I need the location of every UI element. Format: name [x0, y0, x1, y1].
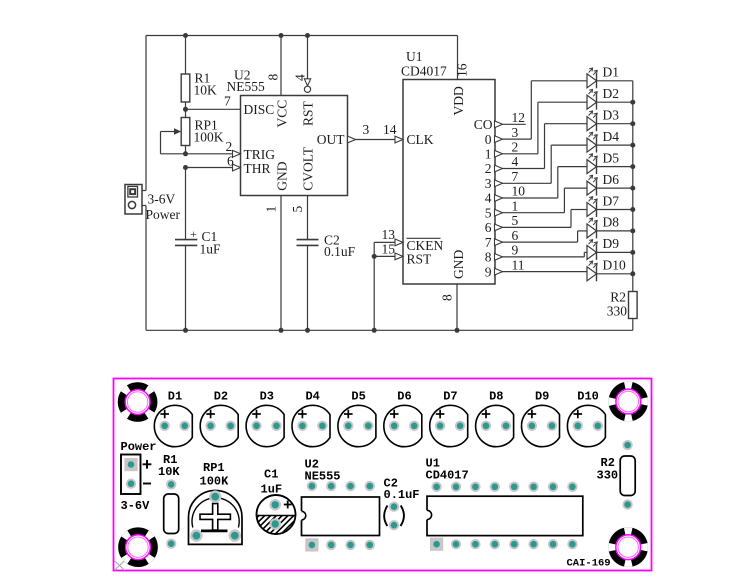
svg-text:3-6V: 3-6V	[148, 192, 176, 207]
svg-text:0.1uF: 0.1uF	[384, 488, 420, 502]
resistor R1 10K	[181, 36, 217, 118]
capacitor C2 0.1uF	[297, 233, 356, 331]
PCB LED footprint D6	[384, 390, 422, 447]
PCB LED footprint D10	[567, 390, 605, 447]
svg-text:6: 6	[512, 228, 519, 243]
op-amp U2 NE555 timer	[227, 68, 348, 196]
wire U1 output 6 (pin 5) to D7	[495, 210, 588, 231]
node LED bus junction D10	[630, 271, 635, 276]
svg-text:5: 5	[485, 205, 492, 220]
svg-text:RP1: RP1	[203, 461, 225, 475]
svg-text:CLK: CLK	[407, 132, 434, 147]
svg-text:14: 14	[383, 122, 397, 137]
svg-text:NE555: NE555	[227, 79, 265, 94]
wire VDD pin16	[455, 36, 470, 80]
wire CKEN/RST ground stub	[373, 242, 375, 330]
svg-text:13: 13	[382, 227, 396, 242]
svg-text:8: 8	[266, 74, 281, 81]
svg-text:GND: GND	[451, 250, 466, 279]
wire CKEN pin13	[374, 227, 403, 246]
svg-text:TRIG: TRIG	[244, 147, 276, 162]
svg-text:1: 1	[264, 206, 279, 213]
wire VCC pin8	[266, 33, 284, 96]
node R1 top junction	[183, 33, 188, 38]
PCB mounting hole top-left	[115, 380, 160, 425]
svg-text:100K: 100K	[194, 130, 224, 145]
node LED bus junction D5	[630, 164, 635, 169]
svg-text:Power: Power	[146, 207, 181, 222]
svg-text:2: 2	[485, 161, 492, 176]
wire U1 output 3 (pin 7) to D4	[495, 145, 588, 187]
svg-text:DISC: DISC	[244, 102, 275, 117]
svg-text:D10: D10	[603, 258, 626, 273]
op-amp U1 CD4017 counter	[401, 49, 495, 284]
svg-text:D4: D4	[603, 129, 620, 144]
svg-text:10K: 10K	[194, 83, 218, 98]
PCB connector Power 3-6V	[121, 440, 157, 513]
svg-text:4: 4	[293, 74, 308, 81]
wire LED cathode bus	[632, 81, 634, 292]
wire U1 output 4 (pin 10) to D5	[495, 167, 588, 202]
PCB LED footprint D5	[338, 390, 376, 447]
node LED bus junction D8	[630, 228, 635, 233]
svg-text:7: 7	[485, 235, 492, 250]
svg-text:THR: THR	[244, 161, 271, 176]
svg-text:16: 16	[455, 63, 470, 77]
svg-text:GND: GND	[275, 161, 290, 190]
wire CVOLT pin5	[290, 196, 308, 240]
LED D9	[587, 236, 633, 260]
svg-text:8: 8	[440, 294, 455, 301]
wire left ground rail lower segment	[145, 206, 147, 331]
wire left power rail upper segment	[145, 36, 147, 191]
node THR junction	[183, 165, 188, 170]
svg-text:5: 5	[290, 206, 305, 213]
LED D2	[587, 86, 633, 110]
PCB potentiometer RP1 100K	[189, 461, 243, 544]
node LED bus junction D7	[630, 207, 635, 212]
svg-text:1: 1	[485, 147, 492, 162]
PCB mounting hole bottom-right	[608, 527, 648, 567]
svg-text:12: 12	[512, 110, 526, 125]
svg-text:6: 6	[227, 154, 234, 169]
svg-text:100K: 100K	[200, 475, 230, 489]
wire THR pin6	[186, 167, 234, 169]
svg-text:D8: D8	[603, 215, 620, 230]
PCB LED footprint D9	[522, 390, 560, 447]
svg-text:D6: D6	[603, 172, 620, 187]
PCB LED footprint D3	[246, 390, 284, 447]
wire U1 output 8 (pin 9) to D9	[495, 243, 588, 261]
PCB capacitor C1 1uF	[235, 468, 317, 540]
svg-text:0: 0	[485, 132, 492, 147]
svg-text:D1: D1	[603, 65, 620, 80]
node C1 ground junction	[183, 328, 188, 333]
svg-text:CKEN: CKEN	[407, 238, 444, 253]
wire bottom ground rail	[146, 329, 633, 331]
svg-text:D7: D7	[603, 193, 620, 208]
PCB board outline	[114, 379, 652, 571]
svg-text:VCC: VCC	[275, 100, 290, 128]
svg-text:OUT: OUT	[317, 132, 345, 147]
PCB op-amp U2 NE555 DIP-8	[300, 458, 379, 552]
svg-text:15: 15	[382, 241, 396, 256]
PCB resistor R2 330	[597, 440, 636, 510]
svg-text:4: 4	[512, 154, 519, 169]
node stub junction	[372, 254, 377, 259]
svg-text:11: 11	[512, 257, 525, 272]
svg-text:D10: D10	[577, 390, 599, 404]
LED D8	[587, 215, 633, 239]
svg-text:CAI-169: CAI-169	[567, 558, 611, 570]
PCB LED footprint D2	[200, 390, 238, 447]
LED D7	[587, 193, 633, 217]
node LED bus junction D2	[630, 100, 635, 105]
svg-text:D6: D6	[397, 390, 411, 404]
node LED bus junction D3	[630, 121, 635, 126]
wire U1 output 5 (pin 1) to D6	[495, 188, 588, 216]
PCB LED footprint D1	[154, 390, 192, 447]
PCB LED footprint D4	[292, 390, 330, 447]
capacitor C1 1uF	[175, 227, 221, 330]
PCB capacitor C2 0.1uF	[384, 477, 420, 531]
svg-text:10: 10	[512, 184, 526, 199]
svg-text:2: 2	[512, 140, 519, 155]
wire TRIG pin2	[186, 153, 234, 155]
svg-text:3: 3	[363, 122, 370, 137]
svg-text:D9: D9	[603, 236, 620, 251]
wire RST pin4 with reset bubble	[293, 33, 311, 92]
svg-text:U1: U1	[406, 49, 423, 64]
PCB mounting hole top-right	[609, 382, 649, 422]
svg-text:D1: D1	[168, 390, 182, 404]
svg-text:0.1uF: 0.1uF	[324, 244, 356, 259]
node TRIG junction	[183, 151, 188, 156]
wire CO pin12 stub	[495, 110, 526, 128]
wire U1 output 9 (pin 11) to D10	[495, 257, 591, 275]
svg-text:RST: RST	[407, 252, 433, 267]
wire GND pin8	[440, 284, 458, 330]
svg-text:3: 3	[512, 125, 519, 140]
svg-text:D8: D8	[489, 390, 503, 404]
node LED bus junction D4	[630, 143, 635, 148]
svg-text:+: +	[190, 227, 197, 241]
node LED bus junction D9	[630, 250, 635, 255]
svg-text:1uF: 1uF	[200, 242, 222, 257]
svg-text:D5: D5	[603, 150, 620, 165]
LED D4	[587, 129, 633, 153]
PCB op-amp U1 CD4017 DIP-16	[426, 457, 583, 551]
connector 3-6V Power	[125, 185, 180, 223]
svg-text:7: 7	[512, 169, 519, 184]
wire U1 output 7 (pin 6) to D8	[495, 228, 588, 246]
wire U1 output 2 (pin 4) to D3	[495, 124, 588, 172]
potentiometer RP1 100K	[161, 118, 224, 154]
svg-text:VDD: VDD	[451, 86, 466, 115]
svg-text:1: 1	[512, 198, 519, 213]
svg-text:4: 4	[485, 191, 492, 206]
svg-text:5: 5	[512, 213, 519, 228]
svg-text:RST: RST	[301, 100, 316, 126]
svg-text:D4: D4	[305, 390, 319, 404]
PCB mounting hole bottom-left	[116, 525, 161, 570]
svg-text:7: 7	[224, 94, 231, 109]
LED D10	[587, 258, 633, 282]
wire U1 output 1 (pin 2) to D2	[495, 102, 588, 157]
svg-text:R2: R2	[610, 290, 626, 305]
svg-text:D3: D3	[603, 108, 620, 123]
PCB LED footprint D7	[430, 390, 468, 447]
svg-text:D2: D2	[214, 390, 228, 404]
svg-text:D9: D9	[535, 390, 549, 404]
node DISC junction	[183, 107, 188, 112]
svg-text:2: 2	[226, 139, 233, 154]
resistor R2 330	[607, 290, 637, 331]
svg-text:10K: 10K	[158, 465, 180, 479]
svg-text:CD4017: CD4017	[426, 469, 469, 483]
svg-text:330: 330	[607, 304, 628, 319]
svg-text:D7: D7	[443, 390, 457, 404]
svg-text:CVOLT: CVOLT	[301, 146, 316, 191]
wire top power rail	[146, 35, 458, 37]
svg-text:D5: D5	[351, 390, 365, 404]
wire DISC pin7	[186, 108, 241, 110]
wire U1 output 0 (pin 3) to D1	[495, 81, 588, 143]
svg-text:9: 9	[512, 243, 519, 258]
svg-text:CO: CO	[474, 117, 493, 132]
corner mark	[115, 561, 125, 570]
svg-text:3-6V: 3-6V	[121, 499, 151, 513]
svg-text:8: 8	[485, 250, 492, 265]
svg-text:Power: Power	[121, 440, 157, 454]
wire OUT pin3 to CLK pin14	[348, 122, 404, 143]
svg-text:C1: C1	[264, 468, 278, 482]
svg-text:D3: D3	[260, 390, 274, 404]
svg-text:9: 9	[485, 264, 492, 279]
LED D1	[587, 65, 633, 89]
svg-text:330: 330	[597, 469, 619, 483]
PCB resistor R1 10K	[158, 453, 180, 549]
PCB LED footprint D8	[476, 390, 514, 447]
node LED bus junction D6	[630, 186, 635, 191]
wire THR to C1	[185, 168, 187, 240]
LED D3	[587, 108, 633, 132]
wire RP1 wiper	[161, 131, 175, 133]
wire RST pin15	[374, 241, 403, 259]
svg-text:D2: D2	[603, 86, 620, 101]
svg-text:3: 3	[485, 176, 492, 191]
svg-text:CD4017: CD4017	[401, 63, 447, 78]
LED D6	[587, 172, 633, 196]
svg-text:6: 6	[485, 220, 492, 235]
LED D5	[587, 150, 633, 174]
wire GND pin1	[264, 196, 282, 331]
